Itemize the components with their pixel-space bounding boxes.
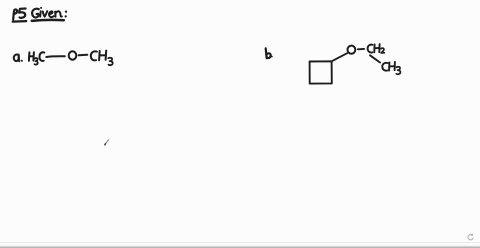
cyclobutane ring [310,61,332,83]
oxygen O of structure b [348,46,356,54]
methylene CH2 letter H [374,44,379,52]
bond ring to O [332,53,348,61]
methyl CH3 of b letter C [382,63,387,71]
methyl H3C letter H [29,52,34,61]
period after b [271,56,273,58]
underline under P5 [13,20,27,23]
methyl CH3 of b letter H [389,62,395,71]
word Given letter e [49,11,54,17]
bond CH2 to CH3 [370,55,380,62]
refresh icon bottom right [468,234,473,240]
word Given letter v [43,11,47,16]
label b letter [266,48,271,58]
methyl CH3 letter H [99,51,106,61]
underline under Given [32,20,64,21]
methyl CH3 subscript 3 [108,58,112,65]
bond O to CH2 [358,48,364,50]
methylene CH2 subscript 2 [381,48,385,53]
word Given letter n [55,11,62,16]
period after a [21,60,23,62]
oxygen O of structure a [69,51,77,59]
methylene CH2 letter C [368,45,373,53]
title letter P [13,9,17,19]
methyl H3C subscript 3 [35,58,38,65]
methyl CH3 letter C [91,51,97,60]
word Given letter i [40,7,42,17]
bond H3C to O [46,55,65,58]
title digit 5 [19,9,26,18]
player progress line [0,241,480,244]
label a letter [14,55,20,62]
methyl CH3 of b subscript 3 [396,67,400,75]
methyl H3C letter C [39,52,44,61]
colon after Given [65,11,68,18]
pencil cursor [105,140,109,145]
bond O to CH3 [79,54,88,57]
word Given letter G [32,9,39,18]
